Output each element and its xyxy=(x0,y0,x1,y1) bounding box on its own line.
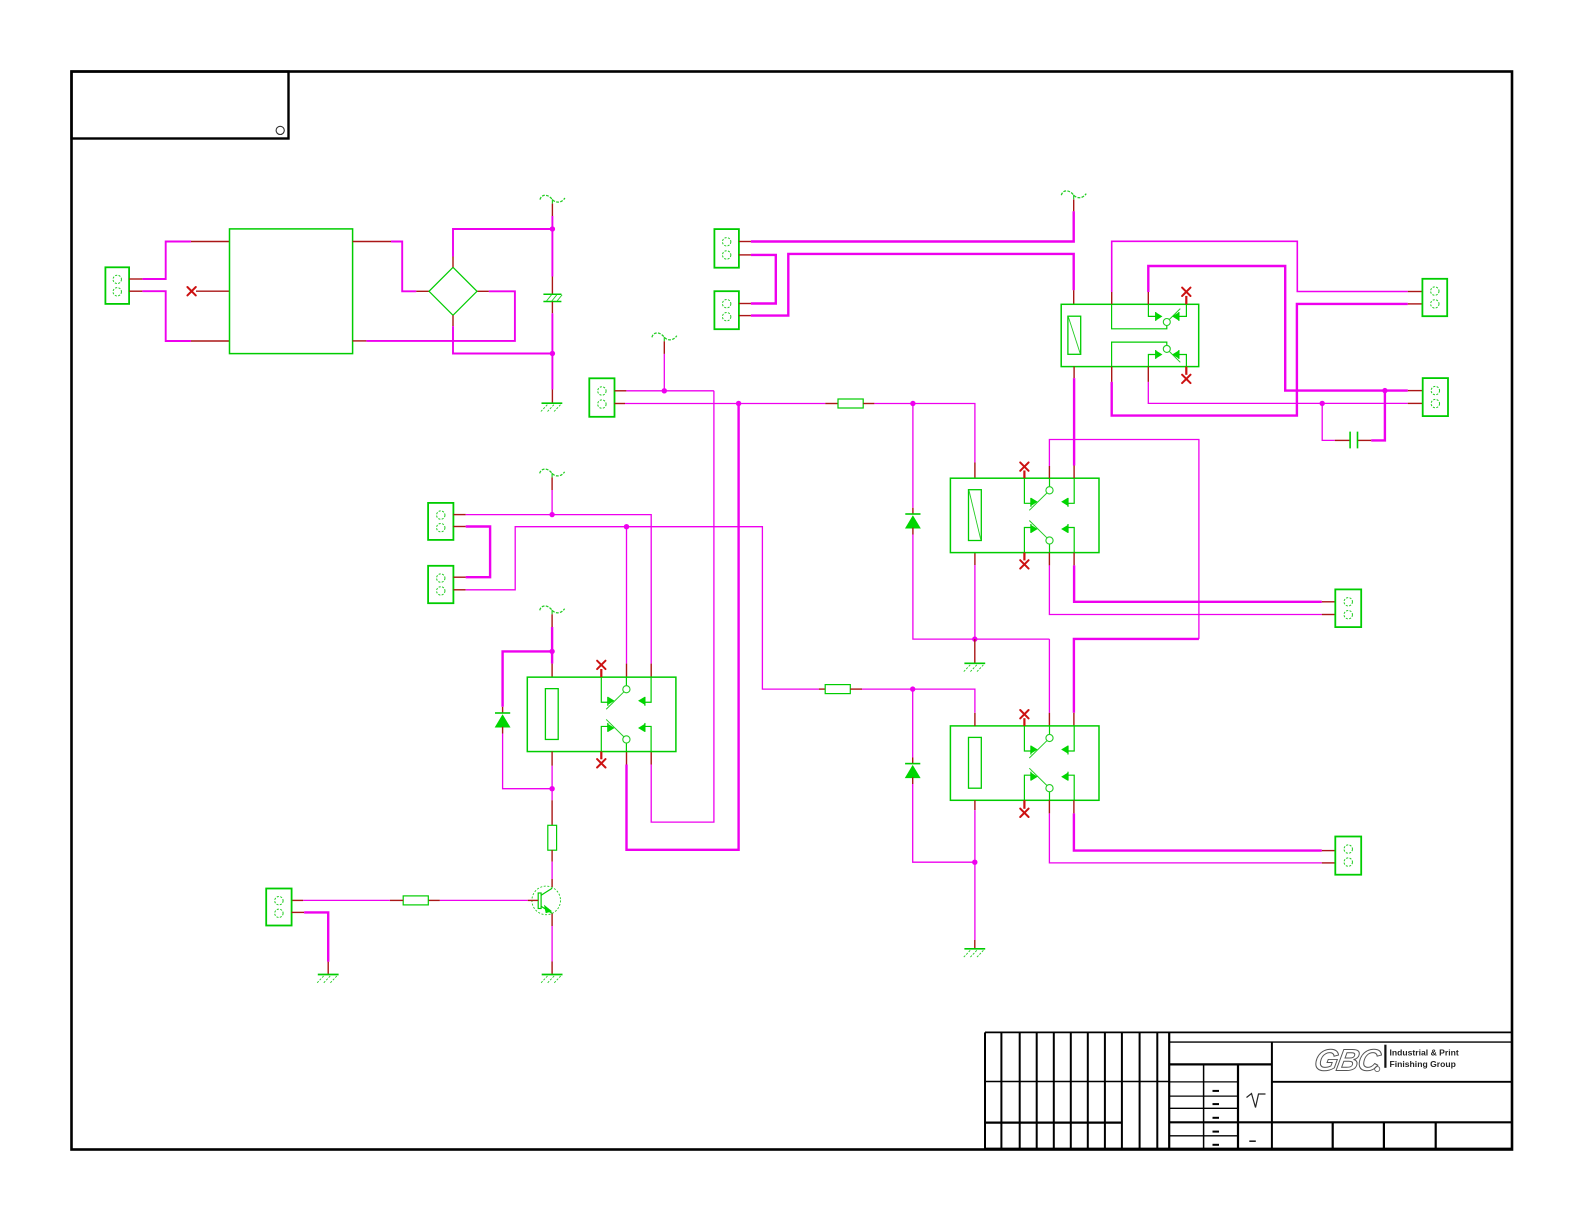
title block grid xyxy=(985,1032,1512,1149)
pin stub J3b pin1 xyxy=(739,303,751,305)
relay K3 top contact tick right xyxy=(1067,746,1069,755)
capacitor C2 xyxy=(1350,432,1357,449)
pin stub T1 sec top xyxy=(353,241,391,243)
pin stub K3 nc bottom xyxy=(1023,800,1025,809)
no-connect X K3 top xyxy=(1020,710,1028,718)
pin stub BR1 bottom xyxy=(452,315,454,326)
pin stub J3a pin2 xyxy=(739,254,751,256)
pin stub P4 xyxy=(663,341,665,354)
pin stub D3 bottom xyxy=(502,727,504,734)
relay K3 bottom contact tick left xyxy=(1030,772,1032,781)
relay K4 top pivot lead xyxy=(625,677,627,686)
pin stub K3 coil top xyxy=(974,713,976,726)
pin stub BR1 right xyxy=(477,290,489,292)
pin stub K1 coil bottom xyxy=(1073,367,1075,379)
junction K3 coil gnd xyxy=(972,860,977,865)
no-connect X K4 bottom xyxy=(597,759,605,767)
relay K2 bottom pivot lead xyxy=(1049,544,1051,553)
pin stub K4 pivot top xyxy=(626,664,628,678)
relay K4 bottom contact fixed-right lead xyxy=(645,726,651,751)
pin stub K1 pin6 top xyxy=(1147,292,1149,304)
wire T1 sec bottom to bridge right xyxy=(366,291,515,341)
relay K3 bottom contact fixed-left lead xyxy=(1024,775,1031,800)
wire T1 sec top to bridge xyxy=(391,242,416,292)
wire BR1 bottom to -rail xyxy=(453,326,551,353)
diode D1 xyxy=(905,514,920,528)
wire D2 top branch xyxy=(912,689,914,757)
junction K4 pivot on net S xyxy=(624,524,629,529)
pin stub K3 nc top xyxy=(1023,718,1025,726)
pin stub ground G3 xyxy=(974,940,976,949)
wire J0 pin2 to T1 pin4 xyxy=(142,291,191,341)
pin stub K1 pin5 bottom xyxy=(1111,367,1113,382)
resistor R2 xyxy=(825,685,850,694)
no-connect X K2 top xyxy=(1020,462,1028,470)
relay K2 bottom contact arrow left xyxy=(1032,526,1037,532)
relay K3 top pivot circle xyxy=(1046,734,1053,741)
relay K2 coil xyxy=(969,490,982,541)
relay K3 top contact fixed-left lead xyxy=(1024,726,1031,751)
pin stub J6 pin1 xyxy=(1322,601,1336,603)
pin stub C1 top xyxy=(551,277,553,294)
wire J3b pin2 to K1 coil xyxy=(751,254,1074,316)
wire net Q down to relay K4 xyxy=(627,404,739,850)
wire J3a pin2 to J3b pin1 xyxy=(751,255,776,304)
relay K4 top contact fixed-right lead xyxy=(645,677,651,702)
pin stub K1 pin6 bottom xyxy=(1147,367,1149,382)
relay K4 bottom pivot circle xyxy=(623,736,630,743)
relay K1 top fixed-right lead xyxy=(1179,304,1187,316)
relay K4 bottom pivot lead xyxy=(625,743,627,752)
pin stub Q1 collector xyxy=(551,879,553,887)
wire Q1 base to R4 xyxy=(440,899,528,901)
wire P4 to J4 pin1 net xyxy=(663,354,665,391)
pin stub JA pin1 xyxy=(453,514,465,516)
wire D3 bottom to coil junction xyxy=(503,734,552,789)
pin stub Q1 base xyxy=(528,899,539,901)
relay K4 coil xyxy=(545,689,558,740)
relay K4 bottom contact fixed-left lead xyxy=(601,726,608,751)
relay K2 bottom contact arrow right xyxy=(1062,526,1067,532)
bridge rectifier BR1 diamond xyxy=(429,267,477,315)
pin stub D1 bottom xyxy=(912,528,914,535)
relay K4 bottom lever xyxy=(606,719,624,736)
relay K2 top contact fixed-left lead xyxy=(1024,478,1031,503)
wire J0 pin2 stub xyxy=(129,290,142,292)
relay K3 body xyxy=(950,726,1099,800)
pin stub J7 pin1 xyxy=(1322,850,1336,852)
relay K3 bottom pivot circle xyxy=(1046,785,1053,792)
relay K3 bottom contact arrow right xyxy=(1062,774,1067,780)
relay K3 top contact fixed-right lead xyxy=(1068,726,1074,751)
no-connect X K4 top xyxy=(597,661,605,669)
wire C2 right branch xyxy=(1371,391,1385,441)
relay K4 top contact arrow left xyxy=(609,698,614,704)
pin stub J1 pin2 xyxy=(1408,303,1423,305)
wire BR1 top to +rail xyxy=(453,229,551,257)
pin stub JB pin2 xyxy=(453,589,465,591)
wire net S down to K4 pivot xyxy=(626,527,628,664)
wire D1 top branch xyxy=(912,404,914,508)
resistor R3 (vertical) xyxy=(548,825,557,850)
junction diode D1 branch xyxy=(910,401,915,406)
relay K1 bottom tick left xyxy=(1155,350,1157,359)
relay K3 top pivot lead xyxy=(1049,726,1051,735)
pin stub J6 pin2 xyxy=(1322,614,1336,616)
no-connect X on T1 pin2 xyxy=(187,287,195,295)
pin stub P1 xyxy=(551,204,553,216)
pin stub ground G5 xyxy=(551,962,553,975)
relay K4 body xyxy=(527,677,676,751)
wire loop K2 pivot up-around xyxy=(1049,440,1199,639)
pin stub T1 pin2 (no connect) xyxy=(196,290,230,292)
diode D3 xyxy=(495,713,510,727)
junction C2 right branch xyxy=(1382,388,1387,393)
transformer T1 body xyxy=(230,229,353,354)
wire K2 coil bottom to gnd junction xyxy=(974,565,976,639)
pin stub D3 top xyxy=(502,707,504,713)
pin stub JA pin2 xyxy=(453,526,465,528)
pin stub T1 pin1 xyxy=(191,241,230,243)
relay K4 top lever xyxy=(606,692,624,709)
wire J4 pin1 net xyxy=(626,390,714,392)
relay K4 bottom contact tick right xyxy=(644,723,646,732)
junction K4 coil / D3 / R3 xyxy=(549,786,554,791)
junction K2 coil gnd xyxy=(972,636,977,641)
junction net Q branch xyxy=(736,401,741,406)
ground G1 xyxy=(541,403,562,411)
pin stub K2 pivot top xyxy=(1048,466,1050,478)
connector J3b xyxy=(714,291,739,329)
relay K1 top staple lead xyxy=(1112,304,1167,329)
relay K4 bottom contact tick left xyxy=(607,723,609,732)
svg-text:GBC: GBC xyxy=(1312,1043,1384,1078)
pin stub K3 contact bottom pivot xyxy=(1048,800,1050,813)
wire J0 pin1 stub xyxy=(129,278,142,280)
pin stub K3 contact top right xyxy=(1073,713,1075,726)
pin stub JB pin1 xyxy=(453,576,465,578)
wire J0 pin1 to T1 pin1 xyxy=(142,242,191,280)
pin stub D2 top xyxy=(912,758,914,764)
wire loop thick to K3 xyxy=(1074,639,1199,713)
wire K4 coil bottom xyxy=(551,766,553,801)
wire K1 pin5 to J1 pin1 xyxy=(1112,241,1408,292)
wire K3 right contact to J7 pin1 xyxy=(1074,813,1322,850)
relay K2 bottom contact tick left xyxy=(1030,524,1032,533)
relay K2 bottom lever xyxy=(1029,521,1047,538)
pin stub C1 bottom xyxy=(551,302,553,314)
pin stub K4 nc bottom xyxy=(600,752,602,760)
surface finish symbol xyxy=(1247,1094,1266,1108)
pin stub K1 nc top xyxy=(1185,296,1187,304)
pin stub K3 contact bottom right xyxy=(1073,800,1075,813)
wire P3 down to K4 coil xyxy=(551,627,553,664)
relay K1 body xyxy=(1061,304,1199,366)
ground G3 xyxy=(964,949,985,957)
wire K2 pivot to J6 pin2 xyxy=(1049,565,1321,614)
pin stub ground G4 xyxy=(327,962,329,975)
wire R4 to J5 pin1 xyxy=(303,899,390,901)
AC power port P2 xyxy=(540,469,565,477)
relay K3 top contact arrow right xyxy=(1062,746,1067,752)
pin stub R4 right xyxy=(428,899,440,901)
junction P4/J4.1 xyxy=(662,388,667,393)
pin stub P5 xyxy=(1073,199,1075,211)
relay K2 bottom contact tick right xyxy=(1067,524,1069,533)
pin stub R2 right xyxy=(850,688,862,690)
wire K2 right contact to J6 pin1 xyxy=(1074,565,1322,601)
relay K1 top arrow left xyxy=(1157,313,1162,319)
ground G2 xyxy=(964,663,985,671)
relay K1 top pivot circle xyxy=(1163,319,1170,326)
relay K3 top lever xyxy=(1029,741,1047,758)
relay K2 body xyxy=(950,478,1099,552)
relay K2 top pivot circle xyxy=(1046,487,1053,494)
relay K4 top contact tick left xyxy=(607,697,609,706)
wire K1 coil bottom to K2 xyxy=(1073,378,1075,465)
junction P3/D3 branch xyxy=(549,649,554,654)
wire C2 left branch xyxy=(1322,403,1335,440)
pin stub J5 pin2 xyxy=(292,911,305,913)
pin stub ground G1 xyxy=(551,390,553,403)
relay K1 top tick left xyxy=(1155,312,1157,321)
junction C2 left branch xyxy=(1320,401,1325,406)
pin stub K3 pivot top xyxy=(1048,713,1050,726)
relay K3 coil xyxy=(969,737,982,788)
pin stub J3a pin1 xyxy=(739,241,751,243)
relay K1 top arrow right xyxy=(1173,313,1178,319)
pin stub K2 nc bottom xyxy=(1023,553,1025,561)
pin stub K2 contact bottom right xyxy=(1073,553,1075,566)
pin stub R3 bottom xyxy=(551,850,553,861)
relay K1 bottom pivot circle xyxy=(1163,345,1170,352)
connector J3a xyxy=(714,229,739,268)
relay K4 bottom contact arrow right xyxy=(639,725,644,731)
transistor Q1 xyxy=(532,886,561,915)
connector J4 xyxy=(589,378,614,417)
no-connect X K1 bottom xyxy=(1182,375,1190,383)
pin stub K4 contact pin bottom right xyxy=(650,751,652,764)
ground G4 xyxy=(317,975,338,983)
pin stub K4 coil top xyxy=(551,664,553,678)
AC power port P3 xyxy=(540,606,565,614)
pin stub K2 coil bottom xyxy=(974,553,976,565)
wire JB pin2 to R2 (net S) xyxy=(466,527,819,689)
pin stub ground G2 xyxy=(974,639,976,663)
tolerance dash xyxy=(1249,1140,1256,1142)
pin stub J7 pin2 xyxy=(1322,862,1336,864)
connector J0 (AC input) xyxy=(105,267,129,304)
pin stub K2 coil top xyxy=(974,463,976,479)
relay K2 top contact tick right xyxy=(1067,498,1069,507)
wire P1 rail upper xyxy=(551,216,553,277)
relay K1 top lever xyxy=(1169,309,1180,320)
title box top-left xyxy=(72,72,289,139)
pin stub Q1 emitter xyxy=(551,914,553,926)
wire JA pin1 to K4 contact xyxy=(466,515,652,664)
wire Q1 emitter to ground xyxy=(551,926,553,962)
wire K1 pin6b to J2 pin2 xyxy=(1148,382,1408,404)
wire K1 pin5b to J1 pin2 xyxy=(1112,304,1408,416)
pin stub K2 contact top right xyxy=(1073,466,1075,479)
relay K3 top contact tick left xyxy=(1030,746,1032,755)
relay K2 top lever xyxy=(1029,493,1047,510)
relay K4 top contact arrow right xyxy=(639,698,644,704)
wire R1 to relay K2 coil xyxy=(874,404,975,463)
relay K1 bottom tick right xyxy=(1178,350,1180,359)
pin stub J5 pin1 xyxy=(292,899,304,901)
no-connect X K2 bottom xyxy=(1020,560,1028,568)
pin stub C2 right xyxy=(1358,439,1371,441)
wire J3a pin1 to P5/K1 coil xyxy=(751,211,1074,241)
wire K1 pin6 to J2 pin1 xyxy=(1148,266,1408,391)
junction -rail xyxy=(550,351,555,356)
wire JA pin2 to JB pin1 xyxy=(466,527,490,578)
GBC logo xyxy=(1312,1043,1459,1078)
pin stub R3 top xyxy=(551,800,553,825)
pin stub K4 pivot pin bottom xyxy=(626,751,628,764)
pin stub K4 coil bottom xyxy=(551,752,553,766)
wire C1 to ground rail xyxy=(551,313,553,389)
pin stub K3 coil bottom xyxy=(974,800,976,810)
pin stub R4 left xyxy=(390,899,403,901)
relay K3 bottom pivot lead xyxy=(1049,792,1051,801)
connector JA xyxy=(428,503,453,540)
svg-text:Industrial & Print: Industrial & Print xyxy=(1390,1048,1459,1058)
relay K1 bottom fixed-left lead xyxy=(1148,355,1155,367)
relay K2 bottom pivot circle xyxy=(1046,537,1053,544)
junction P2 on JA.1 net xyxy=(549,512,554,517)
wire D3 branch left xyxy=(503,651,552,706)
wire J4 pin1 stub xyxy=(615,390,627,392)
pin stub C2 left xyxy=(1335,439,1350,441)
pin stub K1 nc bottom xyxy=(1185,367,1187,375)
no-connect X K1 top xyxy=(1182,288,1190,296)
pin stub K2 contact bottom pivot xyxy=(1048,553,1050,566)
wire K3 pivot to J7 pin2 xyxy=(1049,813,1321,863)
wire J4 pin2 to R1 xyxy=(625,403,825,405)
pin stub K1 coil top xyxy=(1073,290,1075,304)
wire J5 pin2 to ground xyxy=(304,912,328,961)
pin stub J2 pin2 xyxy=(1408,402,1423,404)
relay K1 top tick right xyxy=(1178,312,1180,321)
ground G5 xyxy=(541,975,562,983)
wire R2 to K3 coil xyxy=(862,689,975,713)
connector J2 xyxy=(1423,378,1448,416)
AC power port P1 xyxy=(540,195,565,203)
relay K1 bottom staple lead xyxy=(1112,342,1167,367)
wire gnd net down to relay K3 pivot xyxy=(1048,639,1050,713)
relay K1 bottom lever xyxy=(1169,352,1180,363)
wire net P down-left to relay K4 xyxy=(651,391,714,822)
pin stub R1 right xyxy=(863,403,874,405)
pin stub J3b pin2 xyxy=(739,315,751,317)
pin stub D2 bottom xyxy=(912,777,914,784)
pin stub T1 sec bottom xyxy=(353,340,367,342)
capacitor C1 (hatched) xyxy=(543,294,562,301)
relay K4 top contact fixed-left lead xyxy=(601,677,608,702)
resistor R1 xyxy=(838,399,863,408)
relay K2 bottom contact fixed-right lead xyxy=(1068,528,1074,553)
relay K1 bottom fixed-right lead xyxy=(1179,355,1187,367)
relay K3 top contact arrow left xyxy=(1032,746,1037,752)
pin stub K4 contact top right xyxy=(650,664,652,678)
pin stub K1 pin5 top xyxy=(1111,292,1113,304)
relay K2 top contact fixed-right lead xyxy=(1068,478,1074,503)
connector J1 xyxy=(1422,279,1447,316)
pin stub J1 pin1 xyxy=(1408,291,1423,293)
pin stub K4 nc top xyxy=(600,669,602,677)
diode D2 xyxy=(905,764,920,778)
resistor R4 xyxy=(403,896,428,905)
connector J5 xyxy=(266,889,291,926)
revision circle in title box xyxy=(276,126,284,134)
pin stub D1 top xyxy=(912,508,914,514)
relay K1 coil diagonal xyxy=(1068,317,1080,354)
relay K3 bottom contact fixed-right lead xyxy=(1068,775,1074,800)
pin stub R2 left xyxy=(819,688,826,690)
relay K1 coil xyxy=(1068,316,1081,354)
relay K4 top pivot circle xyxy=(623,686,630,693)
connector J7 xyxy=(1335,837,1361,875)
wire P2 down xyxy=(551,490,553,515)
AC power port P4 xyxy=(652,333,677,341)
connector J6 xyxy=(1335,589,1361,627)
relay K2 top contact arrow left xyxy=(1032,499,1037,505)
relay K3 bottom contact arrow left xyxy=(1032,774,1037,780)
pin stub R1 left xyxy=(825,403,838,405)
relay K2 coil diagonal xyxy=(969,491,981,540)
wire K3 coil bottom to gnd xyxy=(974,810,976,940)
connector JB xyxy=(428,566,453,603)
relay K3 bottom lever xyxy=(1029,768,1047,785)
relay K2 top pivot lead xyxy=(1049,478,1051,487)
pin stub BR1 left xyxy=(416,290,429,292)
pin stub P2 xyxy=(551,477,553,490)
wire D2 bottom to K3 gnd junction xyxy=(913,784,975,862)
relay K2 bottom contact fixed-left lead xyxy=(1024,528,1031,553)
relay K2 top contact tick left xyxy=(1030,498,1032,507)
no-connect X K3 bottom xyxy=(1020,809,1028,817)
relay K1 top fixed-left lead xyxy=(1148,304,1155,316)
wire J4 pin2 stub xyxy=(615,403,626,405)
AC power port P5 xyxy=(1061,191,1086,199)
junction +rail xyxy=(550,226,555,231)
wire D1 bottom to gnd net xyxy=(913,535,1050,640)
relay K2 top contact arrow right xyxy=(1062,499,1067,505)
pin stub BR1 top xyxy=(452,257,454,268)
wire R3 to Q1 collector xyxy=(551,862,553,879)
junction diode D2 branch xyxy=(910,686,915,691)
svg-text:Finishing Group: Finishing Group xyxy=(1390,1059,1456,1069)
pin stub T1 pin4 xyxy=(191,340,230,342)
relay K1 bottom arrow left xyxy=(1157,351,1162,357)
pin stub P3 xyxy=(551,614,553,627)
relay K4 bottom contact arrow left xyxy=(609,725,614,731)
relay K3 bottom contact tick right xyxy=(1067,772,1069,781)
relay K1 bottom arrow right xyxy=(1173,351,1178,357)
pin stub J2 pin1 xyxy=(1408,390,1423,392)
pin stub K2 nc top xyxy=(1023,471,1025,479)
relay K4 top contact tick right xyxy=(644,697,646,706)
